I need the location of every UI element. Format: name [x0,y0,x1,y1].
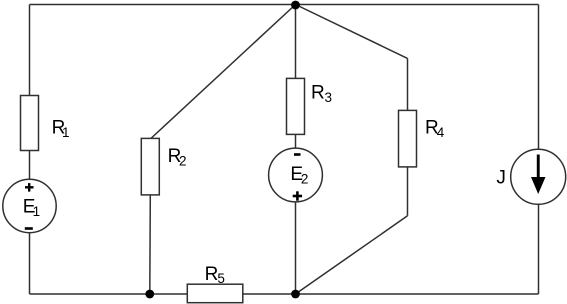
svg-text:2: 2 [179,154,187,169]
wire diagonal R4 branch to bottom node [296,216,408,294]
wire E2 to bottom node [295,202,297,295]
label E1 [23,197,40,220]
resistor R2 [141,138,159,195]
label R4 [425,118,445,141]
wire bottom horizontal [30,293,539,295]
wire top horizontal [30,4,539,6]
polarity plus of E2 [293,191,302,200]
node bottom-left junction [145,290,154,299]
label R2 [168,146,187,169]
svg-text:4: 4 [437,125,445,140]
resistor R1 [21,96,39,151]
wire R2 to bottom node [149,195,152,295]
label J [496,168,506,189]
wire node to R3 [295,5,297,80]
wire E1 to bottom [29,233,31,295]
current source J [511,149,566,204]
label R3 [311,83,332,106]
label R1 [52,118,70,141]
voltage source E1 [3,179,56,232]
svg-text:R: R [311,83,325,104]
wire J to bottom [538,204,540,294]
wire diagonal node to R4 branch [296,5,408,59]
wire R1 to E1 [29,151,31,180]
svg-text:J: J [496,168,506,189]
svg-text:3: 3 [325,90,333,105]
wire right vertical upper [538,5,540,150]
svg-text:1: 1 [33,204,41,219]
svg-text:1: 1 [62,125,70,140]
arrow of current source J [531,155,546,195]
wire R4 branch lower vertical [407,167,409,216]
svg-text:2: 2 [301,171,309,186]
svg-text:5: 5 [217,271,225,286]
label R5 [205,264,225,286]
polarity plus of E1 [25,183,34,192]
node bottom-center junction [291,290,300,299]
node top junction [291,1,300,10]
resistor R5 [187,284,243,303]
wire R3 to E2 [295,134,297,149]
label E2 [290,164,308,187]
polarity minus of E1 [25,227,33,230]
svg-text:R: R [205,264,219,285]
wire diagonal node to R2 [150,5,295,140]
resistor R4 [399,110,417,166]
polarity minus of E2 [294,153,301,156]
wire left vertical upper [29,5,31,97]
voltage source E2 [269,148,323,202]
resistor R3 [287,78,305,134]
wire R4 branch upper vertical [407,58,409,111]
